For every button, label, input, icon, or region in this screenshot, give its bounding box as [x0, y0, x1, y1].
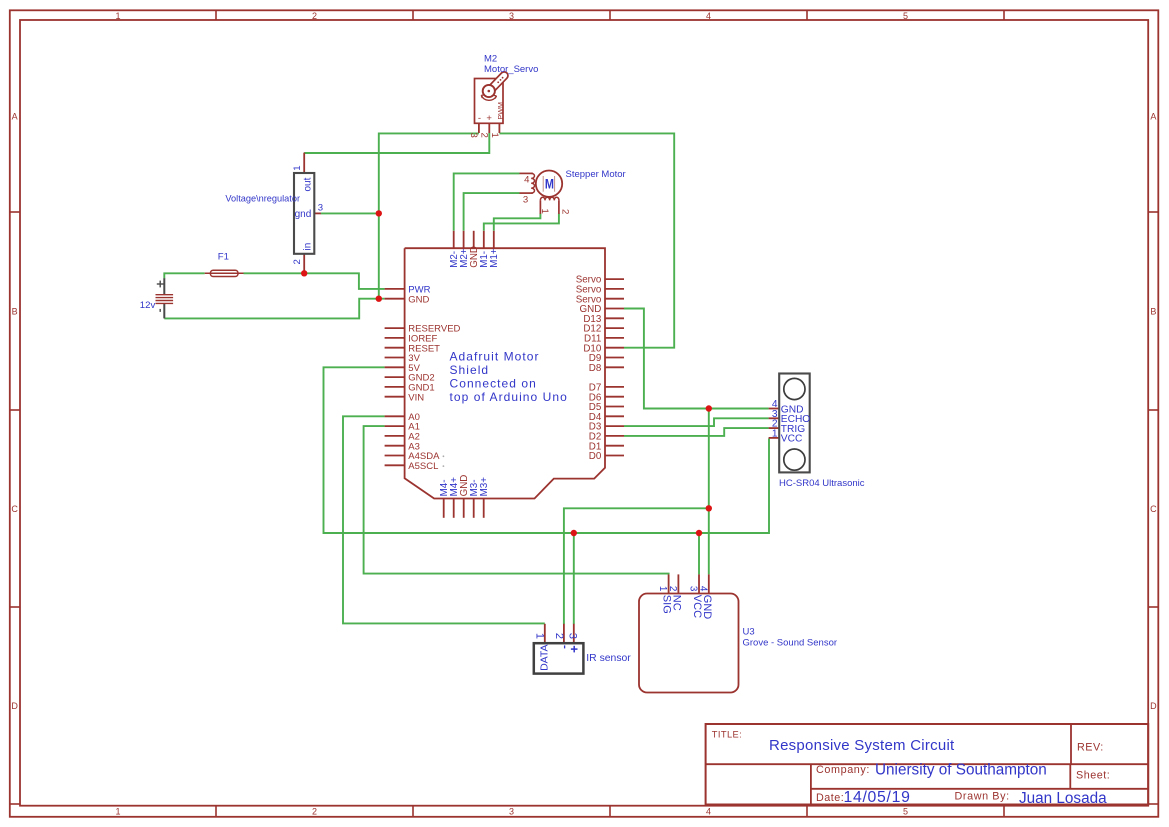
- wire battery+ to fuse: [164, 273, 204, 278]
- shield small dots: [443, 455, 445, 457]
- HC-SR04 transducer bottom: [784, 449, 805, 470]
- servo M2 swing arc: [481, 95, 496, 100]
- wire fuse to PWR: [244, 273, 385, 289]
- stepper motor circle: [536, 171, 562, 197]
- svg-text:D8: D8: [589, 363, 602, 374]
- svg-text:GND: GND: [408, 294, 429, 305]
- svg-text:1: 1: [292, 165, 303, 170]
- svg-text:U3: U3: [743, 627, 755, 638]
- svg-text:B: B: [1150, 307, 1156, 317]
- svg-text:Voltage\nregulator: Voltage\nregulator: [225, 193, 300, 203]
- junction node J6: [571, 530, 577, 536]
- svg-text:A: A: [12, 112, 18, 122]
- stepper coil B (horizontal): [540, 197, 559, 200]
- IR sensor body: [534, 643, 584, 673]
- wire M2- to stepper pin4: [454, 173, 520, 230]
- svg-text:3: 3: [509, 11, 514, 21]
- voltage regulator pin 3 stub: [314, 212, 321, 214]
- wire M1+ to stepper pin1: [494, 214, 541, 231]
- svg-text:12v: 12v: [140, 300, 156, 311]
- IR sensor pin stubs: [544, 624, 546, 643]
- svg-text:F1: F1: [218, 252, 229, 263]
- wire shield GND to HC-SR04 GND: [624, 309, 769, 409]
- svg-text:2: 2: [667, 586, 678, 592]
- stepper coil A pin4 stub: [520, 172, 533, 174]
- svg-text:3: 3: [318, 203, 323, 214]
- svg-text:1: 1: [115, 11, 120, 21]
- title block frame: [706, 724, 1149, 805]
- svg-text:Responsive System Circuit: Responsive System Circuit: [769, 737, 955, 754]
- svg-text:2: 2: [559, 209, 570, 214]
- svg-text:3: 3: [567, 633, 579, 639]
- wire D2 to TRIG: [624, 428, 769, 436]
- svg-text:A: A: [1150, 112, 1156, 122]
- wire A0 to IR DATA: [343, 416, 545, 623]
- stepper coil B pin1 stub: [539, 200, 541, 214]
- svg-text:GND: GND: [701, 595, 713, 620]
- battery plates: [156, 294, 174, 296]
- svg-text:1: 1: [115, 807, 120, 817]
- svg-text:1: 1: [534, 633, 546, 639]
- svg-text:Connected on: Connected on: [450, 377, 537, 391]
- svg-text:2: 2: [553, 633, 565, 639]
- stepper coil A (vertical): [531, 173, 534, 193]
- wire M1- to stepper pin2: [484, 214, 559, 231]
- svg-text:M1+: M1+: [489, 248, 500, 268]
- voltage regulator pin 2 stub: [303, 253, 305, 272]
- IR sensor pin name minus: [564, 645, 566, 648]
- wire A1 to sound sensor SIG: [364, 426, 669, 574]
- shield top pin stubs: [453, 231, 455, 248]
- wire 5V VCC rail: [324, 367, 770, 533]
- svg-text:Sheet:: Sheet:: [1076, 769, 1110, 781]
- svg-text:Stepper Motor: Stepper Motor: [566, 169, 626, 180]
- svg-text:Date:: Date:: [816, 792, 844, 804]
- svg-text:Grove - Sound Sensor: Grove - Sound Sensor: [743, 638, 838, 649]
- servo M2 pin stubs: [478, 123, 480, 133]
- svg-text:3: 3: [509, 807, 514, 817]
- svg-text:5: 5: [903, 11, 908, 21]
- battery minus sign: [159, 309, 161, 312]
- fuse F1 body: [210, 270, 238, 276]
- wire IR plus to VCC rail: [573, 533, 575, 624]
- HC-SR04 body: [779, 374, 810, 473]
- svg-text:D: D: [1150, 701, 1157, 711]
- voltage regulator pin 1 stub: [303, 153, 305, 174]
- svg-text:M3+: M3+: [479, 477, 490, 497]
- svg-text:top of Arduino Uno: top of Arduino Uno: [450, 390, 568, 404]
- svg-text:2: 2: [312, 11, 317, 21]
- svg-text:4: 4: [524, 174, 530, 185]
- wire regulator gnd to ground-rail: [321, 212, 379, 214]
- svg-text:2: 2: [292, 259, 303, 264]
- wire GND branch down to sound sensor: [708, 409, 710, 575]
- svg-text:D0: D0: [589, 451, 602, 462]
- IR sensor pin name plus: [571, 648, 578, 650]
- svg-text:out: out: [303, 177, 314, 191]
- svg-text:VIN: VIN: [408, 392, 424, 403]
- sound sensor U3 body: [639, 594, 739, 693]
- svg-text:3: 3: [468, 132, 479, 137]
- svg-text:Uniersity of Southampton: Uniersity of Southampton: [875, 762, 1047, 779]
- svg-text:Drawn By:: Drawn By:: [955, 791, 1010, 803]
- svg-text:2: 2: [479, 132, 490, 137]
- svg-text:Company:: Company:: [816, 764, 870, 776]
- voltage regulator body: [294, 173, 314, 254]
- wire IR minus to GND branch: [564, 508, 709, 624]
- svg-text:gnd: gnd: [295, 209, 312, 220]
- svg-text:C: C: [1150, 504, 1157, 514]
- svg-text:1: 1: [539, 209, 550, 214]
- wire M2+ to stepper pin3: [464, 193, 520, 231]
- wire servo pin1 to D10: [499, 133, 674, 347]
- svg-text:VCC: VCC: [781, 434, 803, 445]
- servo M2 horn arm: [490, 76, 505, 91]
- junction node J1: [301, 270, 307, 276]
- svg-text:M: M: [545, 176, 554, 192]
- svg-text:HC-SR04 Ultrasonic: HC-SR04 Ultrasonic: [779, 478, 865, 489]
- svg-text:M2: M2: [484, 53, 497, 64]
- svg-text:3: 3: [523, 195, 528, 206]
- sound sensor pin stubs: [668, 574, 670, 593]
- battery plus sign: [157, 283, 164, 285]
- svg-text:Adafruit Motor: Adafruit Motor: [450, 350, 540, 364]
- HC-SR04 transducer top: [784, 378, 805, 399]
- svg-text:IR sensor: IR sensor: [586, 653, 631, 664]
- svg-text:PWM: PWM: [496, 102, 505, 120]
- svg-text:4: 4: [706, 11, 711, 21]
- svg-text:1: 1: [657, 586, 668, 592]
- junction node J4: [706, 405, 712, 411]
- svg-text:Motor_Servo: Motor_Servo: [484, 64, 538, 75]
- wire battery- to GND: [164, 299, 384, 319]
- junction node J3: [376, 296, 382, 302]
- svg-text:+: +: [486, 113, 492, 124]
- svg-text:-: -: [478, 113, 481, 124]
- shield right pin stubs: [605, 278, 624, 280]
- svg-text:3: 3: [688, 586, 699, 592]
- svg-text:4: 4: [706, 807, 711, 817]
- svg-text:in: in: [303, 243, 314, 251]
- svg-text:NC: NC: [670, 595, 682, 611]
- svg-text:5: 5: [903, 807, 908, 817]
- svg-text:2: 2: [312, 807, 317, 817]
- svg-text:TITLE:: TITLE:: [712, 730, 742, 740]
- svg-text:A5SCL: A5SCL: [408, 461, 438, 472]
- junction node J2: [376, 210, 382, 216]
- svg-text:4: 4: [697, 586, 708, 592]
- svg-text:Shield: Shield: [450, 363, 490, 377]
- servo M2 horn hub: [483, 85, 495, 97]
- servo M2 body: [475, 79, 504, 124]
- battery 12v frame: [163, 278, 165, 294]
- junction node J7: [696, 530, 702, 536]
- stepper brush marks: [542, 176, 544, 192]
- HC-SR04 pin stubs: [769, 408, 780, 410]
- svg-text:Juan Losada: Juan Losada: [1019, 790, 1107, 807]
- junction node J5: [706, 505, 712, 511]
- wire servo pin2 to regulator out: [304, 133, 489, 153]
- svg-text:1: 1: [489, 132, 500, 137]
- svg-text:REV:: REV:: [1077, 742, 1104, 754]
- svg-text:C: C: [11, 504, 18, 514]
- op-amp shield outline (Adafruit Motor Shield on Arduino Uno): [405, 248, 605, 498]
- svg-text:1: 1: [772, 428, 778, 439]
- svg-text:DATA: DATA: [539, 644, 551, 670]
- wire servo pin3 ground rail: [379, 133, 479, 298]
- fuse F1 through-line: [205, 272, 244, 274]
- stepper coil A pin3 stub: [520, 192, 533, 194]
- svg-text:B: B: [12, 307, 18, 317]
- svg-text:14/05/19: 14/05/19: [844, 789, 911, 806]
- wire sound sensor VCC to rail: [698, 533, 700, 574]
- wire D3 to ECHO: [624, 418, 769, 426]
- svg-text:D: D: [11, 701, 18, 711]
- shield left pin stubs: [385, 288, 405, 290]
- stepper coil B pin2 stub: [558, 200, 560, 214]
- servo M2 horn dots: [497, 81, 499, 83]
- shield bottom pin stubs: [443, 499, 445, 518]
